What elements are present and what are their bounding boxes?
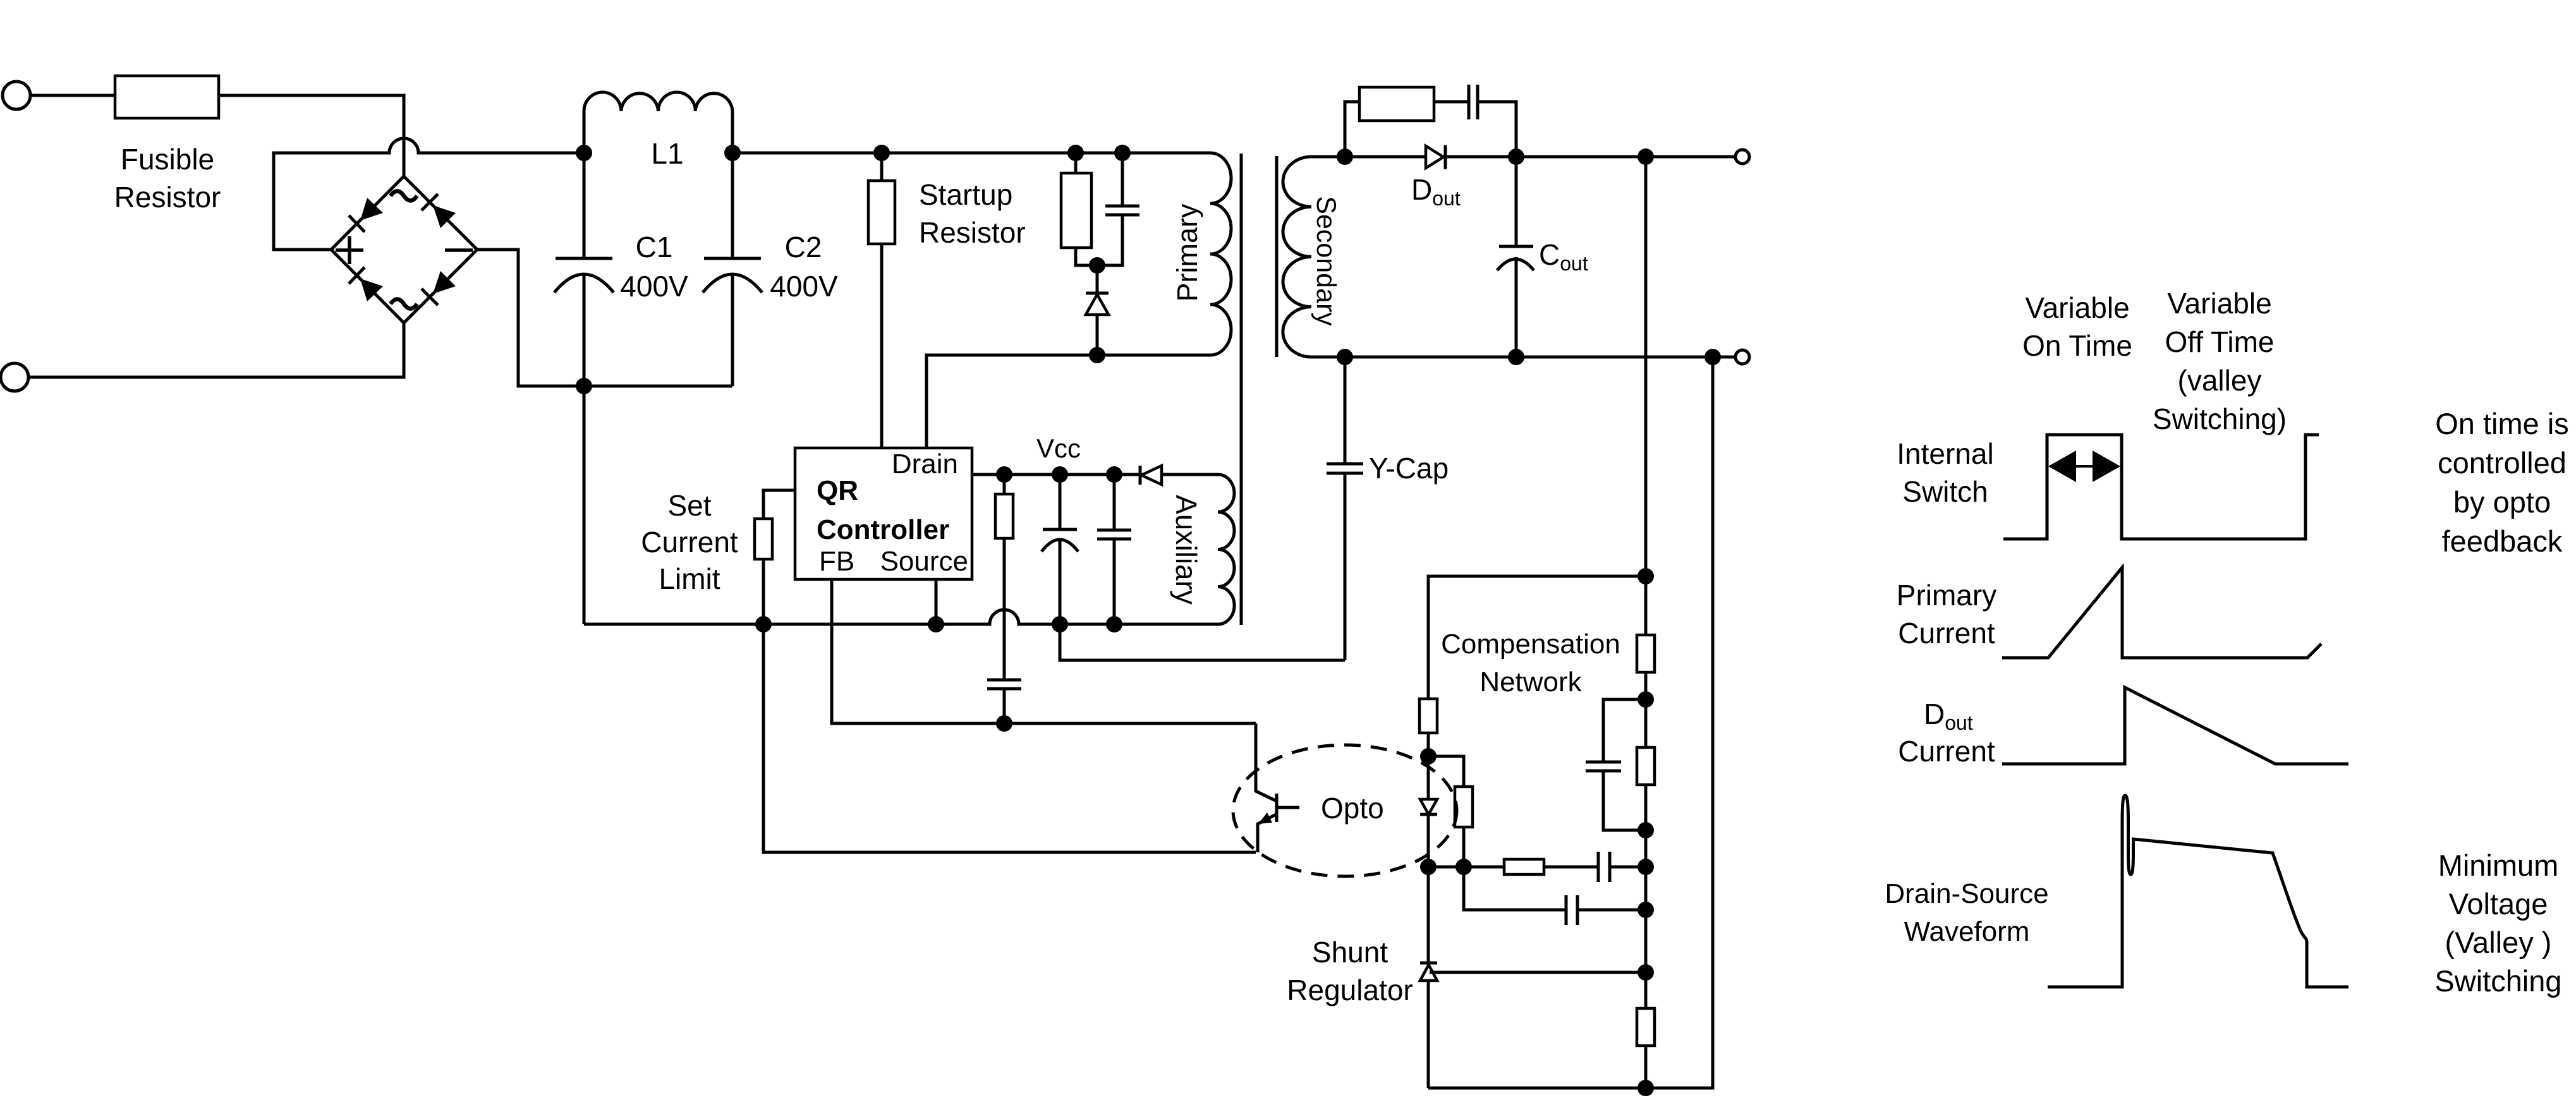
svg-text:Opto: Opto: [1321, 792, 1384, 825]
svg-text:C1: C1: [636, 231, 673, 263]
svg-text:Controller: Controller: [817, 514, 949, 545]
wire: + sense down to compensation network: [1644, 157, 1648, 576]
svg-text:On time is: On time is: [2435, 407, 2569, 440]
transformer auxiliary winding: [1218, 474, 1234, 624]
waveform: drain-source voltage: [2048, 795, 2348, 987]
svg-text:Current: Current: [1898, 735, 1995, 768]
Vcc rail from controller: [972, 473, 1218, 476]
set current limit resistor: [763, 490, 795, 519]
node: right leg junction 2: [1637, 822, 1654, 838]
comp lower resistor: [1637, 1008, 1655, 1046]
svg-text:(Valley ): (Valley ): [2445, 926, 2552, 959]
shunt regulator (TL431): [1427, 867, 1430, 963]
node: Vcc cap1 bottom: [1052, 616, 1068, 632]
svg-text:Switch: Switch: [1902, 475, 1988, 508]
svg-text:Voltage: Voltage: [2449, 887, 2548, 921]
wire: DC return down to source rail: [583, 386, 586, 624]
inductor L1: [584, 92, 732, 153]
node: Vcc cap2 top: [1106, 466, 1122, 483]
svg-text:Drain-Source: Drain-Source: [1885, 878, 2048, 909]
wire: Source pin: [935, 579, 938, 624]
fusible resistor body: [115, 76, 219, 118]
node: FB network junction: [996, 715, 1012, 732]
bridge rectifier diamond: [331, 176, 477, 323]
svg-text:Primary: Primary: [1897, 579, 1996, 612]
opto LED parallel resistor: [1428, 756, 1464, 787]
node: right leg junction 5: [1637, 964, 1654, 981]
node: snubber cap tap: [1114, 145, 1131, 161]
secondary bottom rail to output: [1345, 356, 1735, 359]
Vcc dropper resistor: [1003, 474, 1006, 494]
waveform: primary current: [2002, 567, 2321, 658]
svg-text:On Time: On Time: [2022, 329, 2132, 362]
transformer primary winding: [1122, 153, 1231, 355]
Y capacitor: [1344, 357, 1347, 464]
node: return tap: [1704, 349, 1721, 365]
node: comp ground: [1637, 1080, 1654, 1096]
svg-text:controlled: controlled: [2438, 446, 2567, 480]
Vcc electrolytic capacitor: [1059, 474, 1062, 529]
node: Source pin to rail: [928, 616, 944, 632]
wire: comp network top loop to divider: [1428, 576, 1646, 699]
node: Vcc cap2 bottom: [1106, 616, 1122, 632]
svg-text:Compensation: Compensation: [1441, 629, 1620, 660]
AC input terminal N (bottom): [1, 363, 28, 391]
svg-text:Startup: Startup: [919, 178, 1012, 211]
node: C1 bottom: [576, 378, 592, 394]
opto ellipse: [1233, 745, 1457, 876]
svg-text:Minimum: Minimum: [2438, 849, 2559, 882]
svg-text:Internal: Internal: [1897, 437, 1993, 470]
svg-text:Set: Set: [667, 489, 711, 522]
svg-text:Network: Network: [1479, 667, 1582, 698]
snubber resistor (primary clamp): [1074, 153, 1078, 173]
svg-text:Fusible: Fusible: [121, 143, 214, 176]
node: C1 top: [576, 145, 592, 161]
svg-text:by opto: by opto: [2453, 485, 2551, 519]
wire: drain line to primary bottom: [927, 355, 1210, 448]
node: clamp junction: [1089, 257, 1105, 274]
transformer secondary winding: [1283, 157, 1345, 357]
svg-text:Off Time: Off Time: [2165, 325, 2275, 358]
bridge ~ marks and polarity: [391, 191, 417, 201]
capacitor C2: [731, 153, 734, 258]
wire: set-limit node down to opto emitter return: [763, 624, 1256, 852]
svg-text:Primary: Primary: [1171, 203, 1203, 301]
svg-text:Drain: Drain: [892, 449, 958, 480]
bridge diode D4 (bottom-right): [433, 271, 456, 294]
on-time double arrow: [2055, 465, 2113, 468]
node: right leg junction 4: [1637, 902, 1654, 918]
comp right leg: upper resistor: [1637, 635, 1655, 672]
svg-text:C2: C2: [785, 231, 822, 263]
node: opto LED anode: [1420, 748, 1437, 765]
node: startup resistor tap: [873, 145, 890, 161]
secondary snubber resistor: [1359, 87, 1434, 121]
comp series RC branch: [1428, 866, 1504, 869]
svg-text:(valley: (valley: [2178, 364, 2262, 397]
transformer core line 2: [1275, 156, 1279, 357]
output terminal +: [1735, 150, 1749, 164]
svg-text:feedback: feedback: [2442, 524, 2563, 558]
capacitor C1: [583, 153, 586, 258]
Vcc rectifier diode (points left): [1141, 466, 1162, 485]
wire: terminal to fusible resistor: [30, 94, 115, 97]
output terminal -: [1735, 350, 1749, 364]
svg-text:L1: L1: [651, 137, 683, 170]
wire: bridge - output right and down to DC return rail: [477, 250, 732, 386]
node: right leg junction 3: [1637, 859, 1654, 875]
node: Vcc cap1 top: [1052, 466, 1068, 483]
node: Cout bottom: [1508, 349, 1524, 365]
svg-text:Limit: Limit: [659, 562, 720, 595]
Vcc ceramic capacitor: [1113, 474, 1116, 530]
waveform: Dout current: [2002, 687, 2348, 764]
svg-text:Waveform: Waveform: [1904, 916, 2030, 947]
node: right leg junction 1: [1637, 691, 1654, 708]
output diode Dout: [1426, 146, 1443, 168]
svg-text:Regulator: Regulator: [1287, 974, 1413, 1006]
svg-text:Current: Current: [641, 526, 738, 559]
svg-text:Vcc: Vcc: [1036, 433, 1081, 463]
svg-text:Secondary: Secondary: [1311, 196, 1341, 326]
secondary snubber capacitor: [1467, 85, 1471, 119]
svg-text:FB: FB: [819, 546, 854, 577]
svg-text:Switching: Switching: [2434, 964, 2561, 998]
svg-text:Resistor: Resistor: [114, 181, 221, 214]
node: secondary bottom: [1337, 349, 1353, 365]
svg-text:Resistor: Resistor: [919, 216, 1026, 249]
comp parallel RC: cap leg: [1603, 699, 1646, 762]
wire: fuse to bridge top: [219, 95, 404, 176]
node: comp network top: [1637, 568, 1654, 584]
AC input terminal L (top): [3, 82, 30, 109]
node: + output sense tap: [1637, 148, 1654, 165]
bridge diode D1 (top-left): [360, 198, 383, 221]
transformer core line 1: [1240, 154, 1243, 625]
node: secondary top: [1337, 148, 1353, 165]
comp parallel RC: resistor leg: [1644, 699, 1648, 747]
wire: FB pin down and right to opto collector: [832, 579, 1256, 723]
shunt reference line: [1430, 971, 1646, 974]
svg-text:Shunt: Shunt: [1312, 936, 1388, 969]
svg-text:Source: Source: [880, 546, 968, 577]
svg-text:QR: QR: [817, 475, 858, 506]
svg-text:Switching): Switching): [2153, 402, 2287, 435]
node: C2 top / L1 right: [724, 145, 741, 161]
node: Vcc resistor tap: [996, 466, 1012, 483]
node: drain / primary bottom: [1089, 347, 1105, 363]
svg-text:Current: Current: [1898, 617, 1995, 650]
wire: return tap down to compensation ground: [1428, 357, 1713, 1088]
QR controller box U1: [795, 448, 972, 579]
wire: snubber resistor to cap: [1434, 100, 1469, 104]
wire: snubber cap to diode cathode: [1478, 102, 1516, 157]
output capacitor Cout: [1515, 157, 1518, 246]
snubber capacitor (primary clamp): [1121, 153, 1124, 206]
waveform: internal switch: [2003, 435, 2319, 539]
svg-text:Y-Cap: Y-Cap: [1369, 452, 1449, 485]
secondary top rail to output: [1345, 155, 1735, 159]
svg-text:400V: 400V: [770, 270, 838, 303]
wire: bridge + output up and right to DC rail (hop over AC live wire): [274, 138, 584, 250]
divider upper resistor: [1419, 699, 1437, 733]
node: snubber resistor tap: [1067, 145, 1084, 161]
svg-text:Variable: Variable: [2025, 291, 2129, 324]
clamp diode (points up): [1096, 265, 1099, 293]
bridge diode D3 (bottom-left): [360, 279, 383, 301]
node: Dout cathode: [1508, 148, 1524, 165]
opto transistor: [1256, 723, 1277, 801]
wire: neutral to bridge bottom: [28, 323, 404, 377]
node: parallel resistor bottom: [1455, 859, 1472, 875]
bridge diode D2 (top-right): [433, 205, 456, 228]
comp second cap branch: [1464, 867, 1566, 910]
source rail (primary ground) with hop: [584, 610, 1218, 624]
startup resistor: [880, 153, 884, 181]
wire: primary ground to Y-cap return: [1060, 624, 1345, 660]
svg-text:400V: 400V: [620, 270, 688, 303]
node: set-current-limit to rail: [755, 616, 772, 632]
main DC rail (L1 to primary top): [732, 152, 1210, 155]
opto LED (points down): [1420, 799, 1437, 814]
timing capacitor under Vcc resistor: [987, 679, 1021, 682]
secondary snubber: wire up from secondary top: [1345, 102, 1359, 157]
node: LED cathode: [1420, 859, 1437, 875]
svg-text:Variable: Variable: [2167, 287, 2271, 320]
svg-text:Auxiliary: Auxiliary: [1170, 495, 1203, 605]
